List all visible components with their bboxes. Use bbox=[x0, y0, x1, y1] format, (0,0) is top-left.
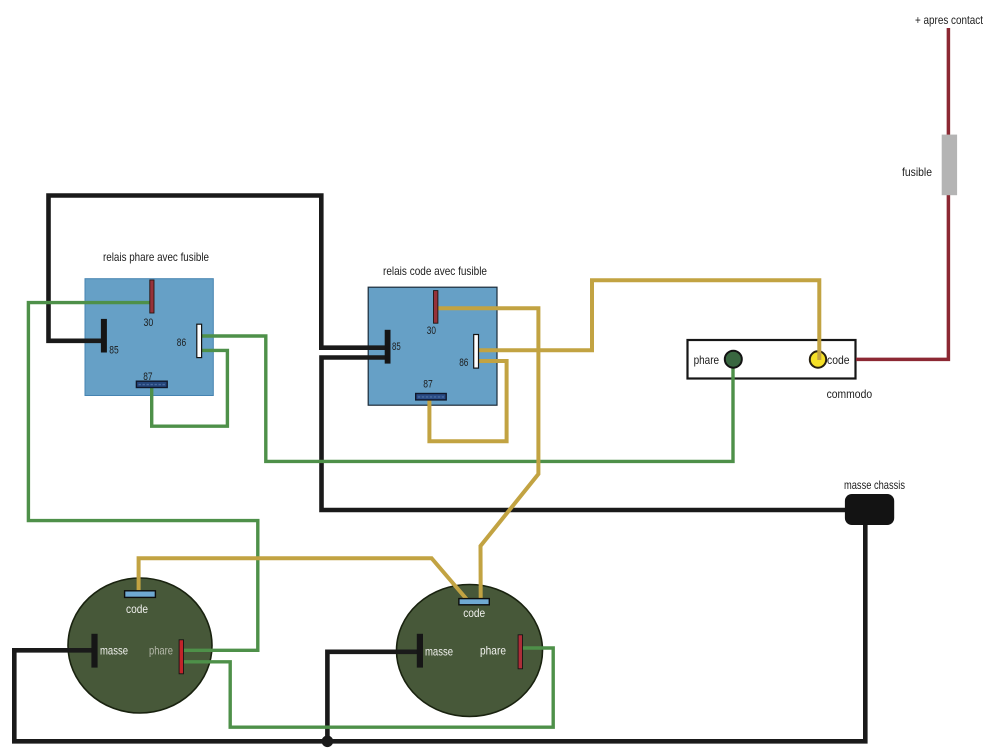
wire green: lamp L2 phare to lamp L1 phare bbox=[181, 648, 553, 727]
svg-text:relais phare avec fusible: relais phare avec fusible bbox=[103, 251, 209, 264]
relay U2 pin 87 terminal bbox=[416, 394, 447, 400]
svg-text:30: 30 bbox=[427, 325, 436, 337]
wire green: relay U1 pin30 to lamp L1 phare bbox=[28, 303, 257, 651]
headlight lamp L2 (right, phare/code/masse) bbox=[397, 585, 543, 717]
commodo switch box bbox=[688, 340, 856, 379]
relay box U2 relais code avec fusible bbox=[368, 287, 497, 405]
wire gold: relay U2 pin86 to pin87 bbox=[429, 361, 506, 441]
svg-text:phare: phare bbox=[149, 644, 173, 658]
svg-text:masse: masse bbox=[100, 643, 128, 657]
masse chassis lug bbox=[845, 494, 894, 525]
relay U1 pin 85 terminal bbox=[101, 319, 107, 353]
lamp L1 code terminal bbox=[125, 591, 156, 598]
svg-text:30: 30 bbox=[144, 317, 154, 329]
lamp L1 phare terminal bbox=[179, 640, 183, 674]
headlight lamp L1 (left, phare/code/masse) bbox=[68, 578, 212, 713]
wire gold: relay U2 pin86 to commodo code bbox=[476, 280, 819, 360]
relay U1 pin 87 terminal bbox=[136, 381, 167, 387]
wire red: + apres contact through fusible to commodo code bbox=[856, 28, 948, 359]
svg-text:masse chassis: masse chassis bbox=[844, 479, 905, 492]
wire green: relay U1 pin86 to commodo phare bbox=[199, 336, 733, 461]
junction node: lamp L2 masse to ground rail bbox=[322, 736, 334, 748]
relay U2 pin 85 terminal bbox=[385, 330, 391, 364]
svg-text:relais code avec fusible: relais code avec fusible bbox=[383, 265, 487, 278]
svg-text:code: code bbox=[827, 354, 850, 367]
svg-text:commodo: commodo bbox=[827, 388, 873, 401]
relay U1 pin 30 terminal bbox=[150, 280, 154, 313]
svg-text:phare: phare bbox=[694, 354, 720, 367]
fuse F1 fusible bbox=[942, 135, 957, 196]
lamp L2 code terminal bbox=[459, 599, 489, 605]
svg-text:85: 85 bbox=[109, 344, 118, 356]
svg-text:fusible: fusible bbox=[902, 166, 932, 179]
svg-text:86: 86 bbox=[177, 337, 186, 349]
svg-text:code: code bbox=[463, 606, 485, 620]
wire black: lamp L2 masse down to bottom rail bbox=[327, 652, 419, 742]
svg-text:code: code bbox=[126, 602, 148, 616]
relay U2 pin 86 terminal bbox=[474, 335, 479, 369]
svg-text:phare: phare bbox=[480, 643, 506, 657]
relay U1 pin 86 terminal bbox=[197, 324, 202, 357]
lamp L2 masse terminal bbox=[417, 634, 423, 668]
commodo code contact bbox=[810, 351, 826, 367]
lamp L1 masse terminal bbox=[91, 634, 97, 668]
wire black: relay U1 pin85 loop to relay U2 pin85 bbox=[49, 196, 387, 348]
svg-text:85: 85 bbox=[392, 341, 401, 353]
wire gold: relay U2 pin30 to lamp L2 code bbox=[436, 308, 538, 600]
svg-text:87: 87 bbox=[143, 371, 152, 383]
svg-text:86: 86 bbox=[459, 357, 468, 369]
svg-text:masse: masse bbox=[425, 645, 453, 659]
wire black: relay U2 pin85 down to masse chassis bbox=[322, 358, 847, 511]
commodo phare contact bbox=[725, 351, 742, 368]
wire green: relay U1 pin86 to pin87 bbox=[152, 350, 228, 426]
svg-text:87: 87 bbox=[423, 379, 433, 391]
wire gold: lamp L1 code to lamp L2 code bbox=[139, 558, 467, 599]
svg-text:+ apres contact: + apres contact bbox=[915, 14, 984, 27]
wire black: masse chassis to bottom rail to lamp L1 masse bbox=[14, 524, 865, 741]
relay U2 pin 30 terminal bbox=[434, 291, 438, 324]
relay box U1 relais phare avec fusible bbox=[85, 279, 213, 396]
lamp L2 phare terminal bbox=[518, 635, 522, 669]
